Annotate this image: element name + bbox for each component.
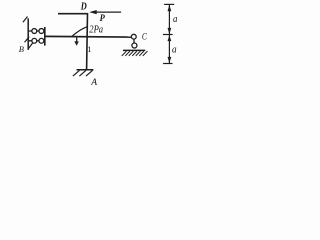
- support B: wall hatching: [23, 17, 33, 49]
- dimension middle tick: [163, 34, 173, 36]
- svg-text:a: a: [173, 14, 177, 25]
- support B: pin circles: [32, 29, 44, 44]
- svg-text:C: C: [142, 32, 148, 42]
- dimension arrow up at top tick: [168, 5, 172, 11]
- support B: upper link: [28, 30, 45, 32]
- force P (leftward arrow): [89, 10, 121, 14]
- dimension top tick: [164, 3, 174, 5]
- support A: ground hatching: [73, 70, 93, 76]
- dimension arrow down at middle tick (upper segment): [168, 28, 172, 34]
- member DE (top horizontal bar): [58, 13, 88, 15]
- support C: link: [133, 39, 135, 43]
- svg-text:P: P: [100, 13, 106, 23]
- svg-text:B: B: [19, 44, 24, 54]
- svg-text:1: 1: [87, 44, 91, 54]
- moment 2Pa (counterclockwise arc arrow at joint): [72, 27, 87, 46]
- support C: ground hatching: [122, 51, 148, 56]
- dimension bottom tick: [163, 63, 172, 65]
- support B: wall line: [27, 18, 29, 50]
- beam BC (main horizontal member): [45, 35, 132, 38]
- support A: ground line: [77, 69, 94, 71]
- support C: ground line: [123, 49, 145, 51]
- support C: pin circle at beam end: [131, 34, 136, 39]
- svg-text:D: D: [80, 2, 87, 13]
- support B: lower link: [28, 40, 45, 42]
- svg-text:2Pa: 2Pa: [89, 24, 103, 36]
- support C: lower pin circle: [132, 43, 137, 48]
- svg-text:A: A: [90, 78, 97, 88]
- dimension arrow up at middle tick (lower segment): [168, 35, 172, 41]
- support B: end plate: [44, 27, 46, 46]
- dimension line (right side): [163, 4, 174, 63]
- dimension arrow down at bottom tick: [168, 57, 172, 63]
- svg-text:a: a: [172, 45, 177, 56]
- member 1 (vertical bar from D through beam to A): [86, 13, 89, 70]
- dimension vertical line: [168, 5, 170, 64]
